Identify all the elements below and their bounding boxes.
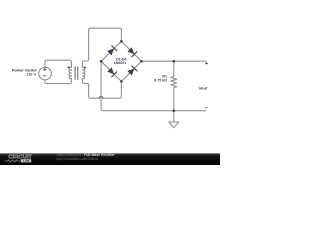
diode D3 cathode bar (112, 72, 117, 77)
resistor R1 bottom lead (173, 88, 175, 111)
wire source top to transformer primary top (45, 60, 72, 67)
diode D1 top-left triangle (107, 48, 114, 55)
wire source bottom to transformer primary bottom (45, 79, 72, 84)
wire hop overlay at crossing (99, 97, 102, 99)
resistor R1 top lead (173, 61, 175, 76)
diode bridge diamond outline (101, 41, 141, 81)
transformer primary polarity dot (68, 66, 70, 68)
junction node at bridge top vertex (120, 40, 123, 43)
ground stem (173, 111, 175, 122)
diode D4 bottom-right triangle (127, 68, 134, 75)
diode D4 cathode bar (132, 66, 137, 71)
output + terminal (205, 62, 208, 65)
diode D2 cathode bar (132, 52, 137, 57)
diode D1 cathode bar (112, 46, 117, 51)
voltage source V1 Power Outlet circle (39, 67, 52, 80)
junction node at bridge right vertex (140, 60, 143, 63)
svg-text:LAB: LAB (23, 159, 30, 163)
transformer T1 secondary winding (82, 67, 84, 79)
diode D3 bottom-left triangle (107, 67, 114, 74)
svg-text:110 V: 110 V (26, 72, 37, 77)
wire transformer secondary top to bridge top vertex (82, 28, 121, 67)
junction node at resistor bottom / ground rail (173, 109, 176, 112)
source plus sign (43, 68, 46, 71)
svg-text:9.75 kΩ: 9.75 kΩ (154, 79, 167, 83)
diode D2 top-right triangle (127, 47, 134, 54)
junction node at resistor top / top rail (173, 60, 176, 63)
svg-text:http://circuitlab.com/c/52kz4t: http://circuitlab.com/c/52kz4t (56, 157, 98, 161)
wire transformer secondary bottom to bridge bottom vertex (with hop) (82, 79, 121, 98)
watermark logo LAB box (21, 159, 31, 162)
transformer T1 core lines (75, 67, 78, 79)
junction node at bridge bottom vertex (120, 80, 123, 83)
ground triangle (169, 122, 179, 128)
wire bridge right vertex to + terminal (top rail) (142, 60, 206, 62)
junction node at bridge left vertex (100, 60, 103, 63)
wire bridge left vertex to bottom rail (101, 61, 206, 110)
source minus sign (43, 75, 46, 77)
transformer secondary polarity dot (84, 67, 86, 69)
svg-text:Vout: Vout (199, 86, 208, 91)
output - terminal (205, 107, 207, 109)
transformer T1 primary winding (69, 67, 71, 79)
watermark logo resistor squiggle (5, 160, 21, 162)
resistor R1 zigzag body (171, 76, 177, 87)
svg-text:1N4001: 1N4001 (114, 61, 127, 65)
